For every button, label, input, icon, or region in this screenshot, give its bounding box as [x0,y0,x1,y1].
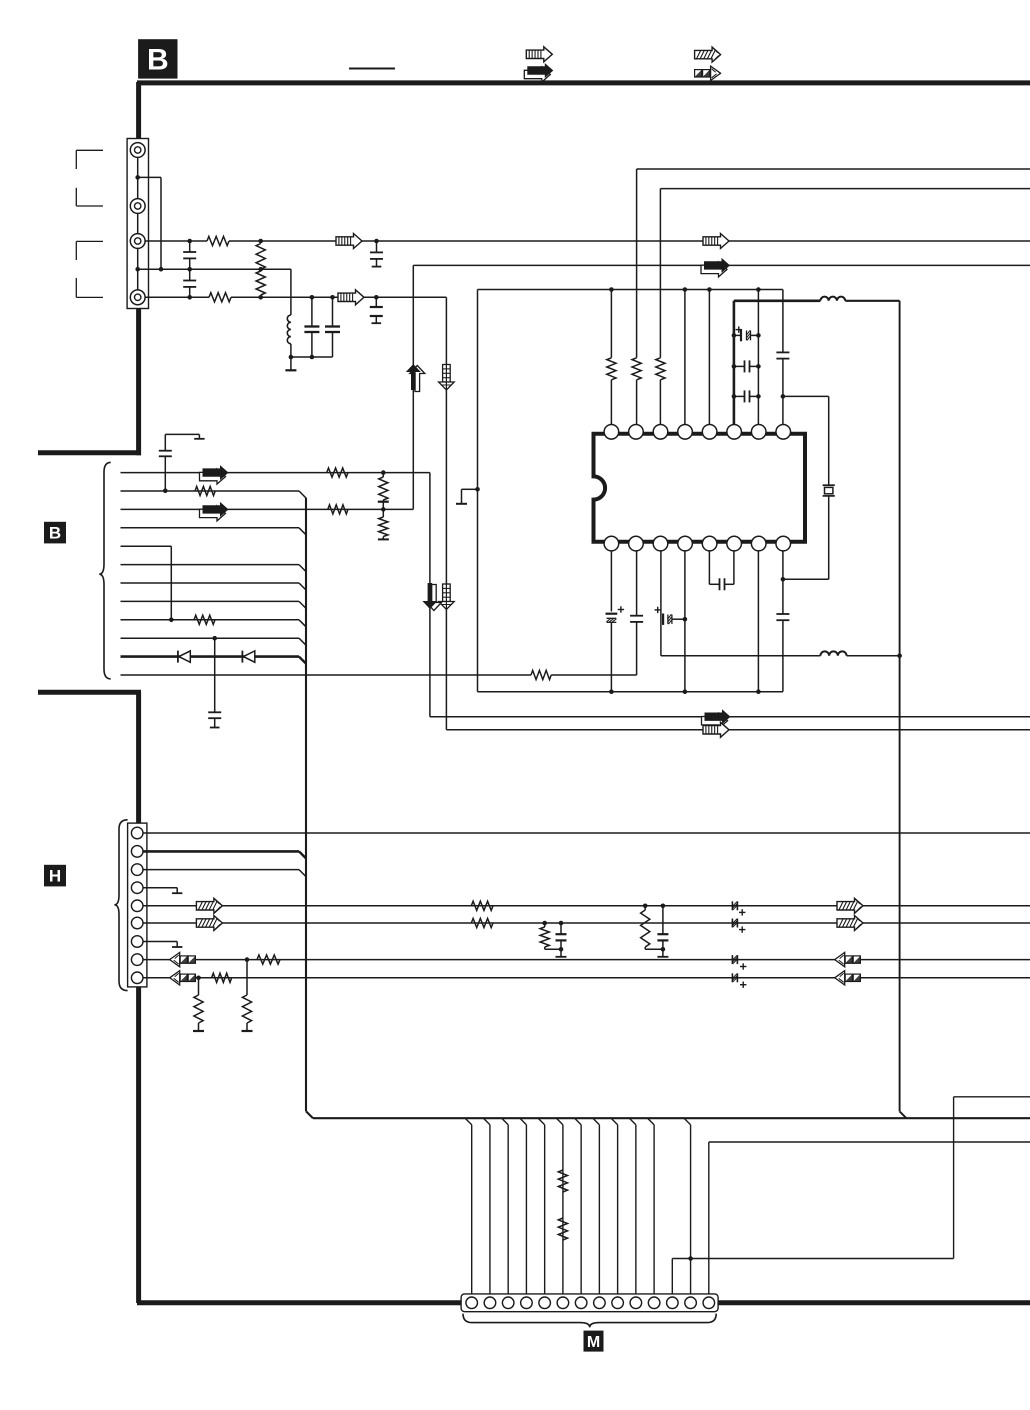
wire pin2-bottom column upper [636,551,638,616]
brace B-section [99,462,111,679]
node C5 top [330,295,335,300]
wire pin5-top column [708,290,710,425]
connector H1 body [128,823,147,987]
wire mid line y269 [138,268,291,270]
arrow striped down on riser B lower [439,584,455,610]
resistor R9 [195,486,215,495]
wire line y1096 to right [954,1096,1030,1098]
wire B line8 [121,600,300,602]
node B line2 cap tap [163,489,168,494]
capacitor C1 [183,241,196,269]
arrow checkered left on H pin9 [170,971,196,985]
IC U1 bottom pins 1-8 [604,536,790,551]
wire B line10 [121,637,300,639]
stub C20 bottom bar [657,949,668,957]
resistor R23 vertical [378,473,389,510]
connector P1 pin 1 [130,143,145,158]
wire pin4 line right [363,296,446,298]
resistor R19 [540,923,561,949]
capacitor C7 plus [736,326,742,332]
ground G2 [193,1030,204,1032]
wire bottom link [291,356,333,358]
arrow striped on pin4 line [338,290,364,305]
node H pin9 R tap [196,976,201,981]
wire B line2 [121,490,300,492]
wire riser B vertical [445,297,447,730]
node H pin8 R tap [245,957,250,962]
wire B line4 [121,527,300,529]
resistor R13 [471,901,493,910]
capacitor C10 [776,352,789,358]
page border left lower segment [38,692,141,1303]
node C20 bottom [661,947,666,952]
arrow striped down on riser B upper [439,365,455,391]
capacitor C17 polarized small [732,955,737,964]
wire pin2-bottom column lower [636,622,638,675]
wire riser A vertical [412,265,414,509]
svg-text:H: H [49,867,61,886]
resistor R10 [328,505,348,514]
capacitor C21 plus [739,909,745,915]
resistor R3 (lower of divider) [256,271,265,295]
wire R3 bottom lead [260,295,262,297]
wire IC pin1-top column upper [610,290,612,358]
capacitor C9 [734,390,759,402]
arrow hatched on H pin6 right [837,916,863,931]
wire crystal branch bottom [783,496,829,579]
arrow black on line y716 [702,709,731,728]
node R23 bottom junction [381,507,386,512]
wire H pin4 stub [143,888,182,894]
resistor R5 [607,358,616,380]
wire B line1 [121,472,430,474]
node R23 top junction [381,470,386,475]
capacitor C4 [304,297,319,357]
wire H pin9 line [143,977,1030,979]
arrow hatched on H pin5 right [837,898,863,913]
wire crystal branch top [783,395,829,397]
wire pin6-bottom column [725,551,734,584]
capacitor C5 [325,297,340,357]
capacitor C13 polarized [663,614,685,625]
capacitor C11 plus [618,606,624,612]
svg-text:B: B [147,44,169,77]
wire M col12 from line y1258 [671,1259,673,1298]
page border top thick line [137,80,1030,85]
wire pin1-bottom column lower [610,622,612,691]
resistor R6 [632,358,641,380]
arrow black on B line1 [200,465,229,484]
arrow checkered left on H pin8 right [835,952,861,966]
capacitor C12 [630,616,643,622]
wire M col14 vertical [708,1142,710,1297]
wire R5 to pin1 [610,380,612,425]
connector P1 pin 2 [130,199,145,214]
capacitor C3 to stub [370,241,383,267]
connector P1 bracket upper dashed [76,150,103,206]
capacitor C18 polarized small [732,973,737,982]
wire audio line y655 [661,655,821,657]
wire H pin3 line [143,870,306,877]
arrow black down on riser C [422,583,441,611]
wire line y716 to right [430,716,1030,718]
capacitor C19 [556,923,567,949]
node L1 bottom junction [289,355,294,360]
wire mid-line corner down [290,269,292,315]
node riser D stub tap [475,487,480,492]
wire L1 bottom [290,344,292,357]
inductor L1 [287,315,291,344]
page border left upper segment [38,82,141,455]
node pin4 cap tap [374,295,379,300]
node R2/R3 mid junction [258,267,263,272]
resistor R14 [471,918,493,927]
wire VCC thick line y300 [734,299,821,302]
capacitor C11 polarized [606,614,618,623]
IC U1 body [594,434,806,542]
wire pin4-top column [684,290,686,425]
connector H1 pins 1-9 [131,827,143,983]
wire pin8-top column upper [782,290,784,353]
legend arrow checkered [695,66,721,80]
capacitor C2 [183,269,196,297]
wire B line12 right [551,673,636,676]
wire R7 to pin3 [659,380,661,425]
node L3 bus junction [897,654,902,659]
node pin6 cap taps [732,333,737,399]
section label H [44,865,66,887]
resistor R20 [641,906,663,950]
wire pin1-bottom column upper [610,551,612,612]
connector P1 bracket lower dashed [76,241,103,297]
node line y691 junctions [609,689,761,694]
wire H pin2 line thick [143,851,306,858]
diode D1 [178,651,190,663]
svg-text:M: M [587,1334,600,1351]
ground G1 [285,357,296,370]
resistor R11 [194,615,215,624]
legend arrow hatched [695,47,721,62]
arrow hatched on H pin6 line [196,916,222,931]
terminal bar R24 [378,538,389,540]
connector P1 pin 3 [130,234,145,249]
wire riser D vertical [477,290,479,692]
node pin8 branch junction [781,577,786,582]
arrow striped on pin3 line right [703,234,729,249]
node C1/C2 taps [187,239,192,300]
node RC1 taps [542,921,563,926]
wire riser A top line y265 [413,264,1030,266]
capacitor C20 [657,906,668,950]
wire B line9 [121,619,300,621]
resistor R21 [558,1170,567,1192]
section label B top [138,39,177,78]
connector M1 pins 1-14 [466,1297,715,1309]
svg-text:B: B [49,524,61,543]
connector M1 body [461,1294,718,1312]
resistor R24 vertical [379,509,388,538]
wire line y165 to right [637,168,1030,170]
resistor R8 [327,468,348,477]
capacitor C15 [776,614,789,620]
section label B mid [44,522,66,544]
node P1 pins junction dots [135,175,140,271]
inductor L2 [820,297,845,301]
node line y289 junctions [609,287,761,292]
wire riser C vertical [429,473,431,717]
wire B line12 [121,674,532,676]
wire L2 to right corner [845,300,899,302]
stub C19 bottom bar [556,949,567,957]
wire IC pin3-top column upper [659,189,661,358]
wire pin4 line left [145,296,209,298]
capacitor C16 to stub [208,638,221,727]
ground stub S1 [456,489,478,504]
wire pin7-bottom column [757,551,759,692]
wire H pin8 line [143,959,1030,961]
legend arrow black [524,63,553,82]
capacitor C21 polarized small [732,901,737,910]
inductor L3 [820,651,846,655]
arrow checkered left on H pin9 right [835,971,861,985]
wire B line7 [121,582,300,584]
capacitor C22 polarized small [732,919,737,928]
connector P1 pin 4 [130,290,145,305]
wire pin8-top column lower [782,359,784,425]
antenna stub S2 [159,434,205,491]
node pin3 cap tap [374,239,379,244]
section label M [584,1331,604,1352]
arrow checkered left on H pin8 [170,952,196,966]
IC U1 top pins 16-9 [604,425,790,440]
node C4 taps [310,295,315,359]
wire B-section bus vertical [305,498,307,1111]
resistor R2 (upper of divider) [256,244,265,270]
wire line y1142 to right [709,1141,1030,1143]
wire pin3 line right [362,240,1030,242]
brace H-section [114,820,127,991]
wire pin3 line left [145,240,207,242]
capacitor C13 plus [655,607,661,613]
node R3 bottom [258,295,263,300]
legend reference line [349,68,395,70]
wire H pin1 line [143,832,1030,834]
node B line10 cap tap [212,636,217,641]
wire B line11 thick [121,655,300,658]
capacitor C22 plus [739,926,745,932]
resistor R4 [209,293,231,302]
node pin7 cap taps [756,333,761,399]
wire pin5-bottom column [709,551,719,584]
wire H pin7 stub [143,942,182,948]
resistor R7 [656,358,665,380]
wire P1 pin1 tap branch [138,177,161,269]
wire L3 to bus [847,655,900,657]
crystal X1 [823,396,835,496]
resistor R15 [257,955,280,964]
wire H pin6 line [143,922,1030,924]
node col13 junction y1258 [688,1256,693,1261]
node C19 bottom [559,947,564,952]
diode D2 [242,651,254,663]
arrow black up on riser A [406,364,425,392]
wire line y289 [478,289,783,291]
wire IC pin2-top column upper [636,169,638,358]
wire pin4-bottom column [684,551,686,692]
wire pin3 line mid [229,240,336,242]
wire pin3-bottom column [660,551,662,656]
node pin8 crystal tap [781,394,786,399]
resistor R1 [207,236,229,245]
wire pin6-top column thick [733,301,736,425]
wire line y729 to right [446,729,1030,731]
wire P1 pin link vertical [137,150,139,297]
resistor R12 [531,670,551,679]
ground G3 [242,1030,253,1032]
wire bus 45-degree entries [299,491,306,664]
wire H pin5 line [143,905,1030,907]
wire R6 to pin2 [636,380,638,425]
arrow striped on line y729 [703,722,729,737]
connector P1 body [127,139,148,309]
capacitor C6 to stub [370,297,383,323]
node pin4 cap junction [683,617,688,622]
wire line y1258 [672,1258,953,1260]
wire pin8-bottom column upper [782,551,784,614]
wire M connector fan columns [465,1118,690,1297]
capacitor C7 polarized [734,330,759,342]
wire pin8-bottom column lower [782,620,784,692]
legend arrow striped [526,47,552,62]
arrow striped on pin3 line [336,234,362,249]
arrow black on line y265 [701,258,730,277]
arrow black on B line3 [200,502,229,521]
resistor R16 [212,973,232,982]
wire riser x953 [953,1097,955,1259]
wire B line6 [121,564,300,566]
capacitor C14 [720,578,725,590]
capacitor C17 plus [740,963,746,969]
wire right bus vertical x899 [900,301,907,1118]
wire B line3 [121,508,414,510]
wire pin7-top column [757,290,759,425]
wire bus bottom bend [306,1111,313,1118]
page border bottom thick line [137,1300,1030,1305]
node B line9 junction [169,618,174,623]
arrow hatched on H pin5 line [196,898,222,913]
brace M-section [463,1314,716,1328]
node R2 top [258,239,263,244]
capacitor C18 plus [740,982,746,988]
resistor R17 vertical [194,978,203,1031]
capacitor C8 [734,360,759,372]
wire bottom bus line y1118 [313,1117,1030,1119]
node tap-mid junction [159,267,164,272]
resistor R22 [558,1218,567,1240]
resistor R18 vertical [242,960,251,1031]
wire B line5 [121,546,172,620]
wire line y189 to right [660,188,1030,190]
wire pin4 line mid [231,296,338,298]
wire long line y691 [478,691,783,693]
node RC2 taps [643,904,665,909]
